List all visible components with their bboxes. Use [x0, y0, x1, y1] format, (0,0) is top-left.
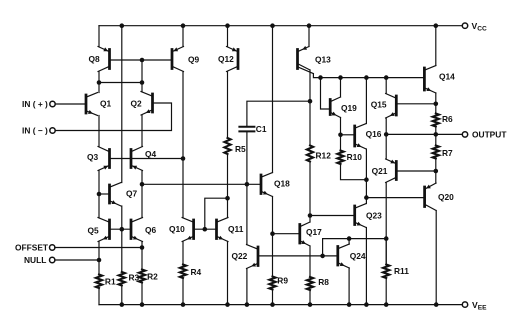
svg-text:Q21: Q21 — [372, 166, 388, 176]
svg-text:Q20: Q20 — [438, 192, 454, 202]
svg-text:Q12: Q12 — [218, 54, 234, 64]
svg-text:Q7: Q7 — [126, 189, 138, 199]
svg-text:Q11: Q11 — [228, 224, 244, 234]
svg-text:Q2: Q2 — [131, 99, 143, 109]
svg-text:R7: R7 — [442, 148, 453, 158]
svg-text:Q16: Q16 — [366, 129, 382, 139]
svg-text:Q19: Q19 — [341, 103, 357, 113]
svg-text:Q6: Q6 — [145, 225, 157, 235]
svg-text:Q4: Q4 — [145, 149, 157, 159]
svg-text:Q10: Q10 — [169, 224, 185, 234]
svg-text:R4: R4 — [191, 267, 202, 277]
svg-text:OFFSET: OFFSET — [15, 242, 49, 252]
svg-text:R9: R9 — [277, 276, 288, 286]
svg-text:R8: R8 — [318, 277, 329, 287]
svg-text:Q3: Q3 — [87, 152, 99, 162]
svg-text:R10: R10 — [347, 152, 363, 162]
svg-text:Q17: Q17 — [306, 227, 322, 237]
svg-text:R3: R3 — [129, 273, 140, 283]
svg-text:Q13: Q13 — [315, 55, 331, 65]
svg-text:Q9: Q9 — [188, 55, 200, 65]
svg-text:Q5: Q5 — [88, 226, 100, 236]
svg-text:Q24: Q24 — [350, 251, 366, 261]
svg-text:R5: R5 — [235, 144, 246, 154]
svg-text:OUTPUT: OUTPUT — [472, 129, 507, 139]
svg-text:Q23: Q23 — [366, 211, 382, 221]
svg-text:Q1: Q1 — [100, 99, 112, 109]
svg-text:R6: R6 — [442, 114, 453, 124]
svg-text:Q18: Q18 — [274, 179, 290, 189]
svg-text:Q22: Q22 — [232, 251, 248, 261]
svg-text:R1: R1 — [105, 276, 116, 286]
svg-text:R11: R11 — [394, 266, 409, 276]
svg-text:R2: R2 — [147, 272, 158, 282]
svg-text:Q15: Q15 — [371, 100, 387, 110]
svg-text:Q8: Q8 — [89, 54, 101, 64]
svg-text:VEE: VEE — [472, 300, 487, 312]
svg-text:Q14: Q14 — [439, 72, 455, 82]
svg-text:R12: R12 — [316, 150, 332, 160]
svg-text:IN ( − ): IN ( − ) — [22, 126, 48, 136]
svg-text:IN ( + ): IN ( + ) — [22, 99, 48, 109]
svg-text:NULL: NULL — [24, 255, 46, 265]
svg-text:VCC: VCC — [472, 21, 487, 33]
svg-text:C1: C1 — [256, 124, 267, 134]
